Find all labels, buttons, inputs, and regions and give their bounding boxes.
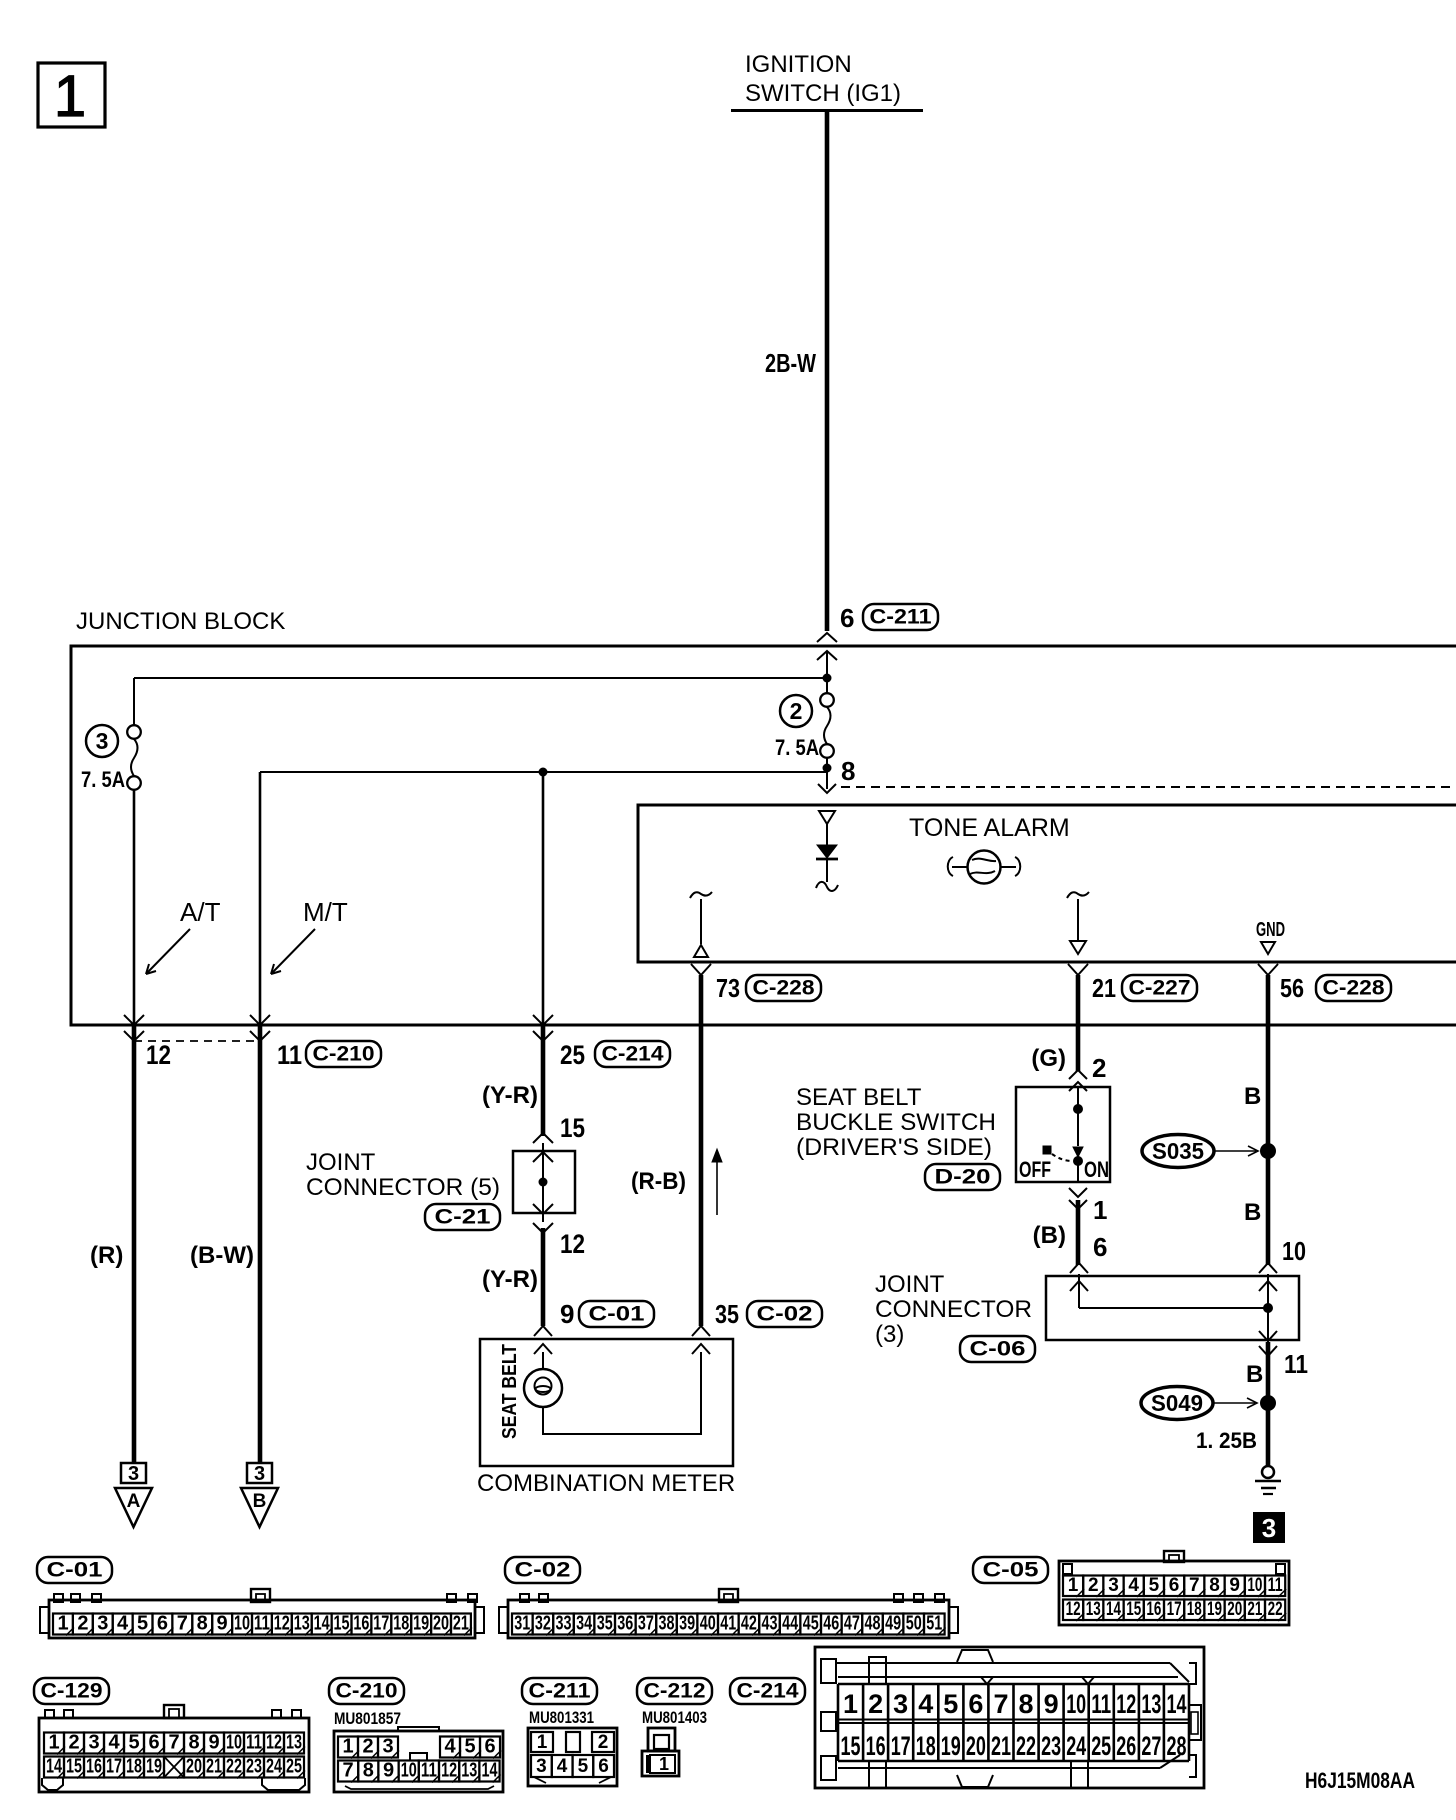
connector label C-210: [306, 1041, 381, 1067]
svg-text:9: 9: [383, 1760, 394, 1782]
svg-text:C-228: C-228: [753, 977, 815, 1000]
tone alarm internal stub pin 21: [1067, 892, 1089, 898]
svg-text:C-212: C-212: [644, 1680, 706, 1703]
connector C-02 drawing: [508, 1600, 949, 1638]
svg-text:5: 5: [128, 1732, 139, 1754]
svg-text:6: 6: [968, 1689, 983, 1719]
svg-text:C-01: C-01: [47, 1559, 103, 1582]
junction block outline: [71, 646, 1456, 1025]
connector chevron pin 73: [691, 964, 711, 975]
svg-text:5: 5: [464, 1736, 475, 1758]
svg-text:4: 4: [1128, 1575, 1139, 1596]
svg-text:17: 17: [106, 1756, 122, 1778]
svg-text:2B-W: 2B-W: [765, 348, 816, 378]
connector label C-211: [863, 604, 938, 630]
svg-text:50: 50: [906, 1613, 922, 1635]
svg-text:19: 19: [413, 1613, 429, 1635]
off-page reference 3 (ground page): [1253, 1512, 1285, 1543]
connector label C-01 (pin 9): [579, 1301, 654, 1327]
svg-text:3: 3: [1262, 1513, 1276, 1543]
svg-text:33: 33: [556, 1613, 572, 1635]
svg-text:35: 35: [715, 1299, 739, 1329]
svg-text:42: 42: [741, 1613, 757, 1635]
tone alarm buzzer symbol: [968, 851, 1001, 884]
svg-text:9: 9: [217, 1613, 228, 1635]
svg-text:48: 48: [865, 1613, 881, 1635]
svg-text:6: 6: [1093, 1232, 1107, 1262]
wire 2B-W from ignition switch: [825, 111, 830, 632]
svg-text:18: 18: [393, 1613, 409, 1635]
svg-text:16: 16: [86, 1756, 102, 1778]
svg-text:23: 23: [246, 1756, 262, 1778]
svg-text:SEAT BELT: SEAT BELT: [796, 1084, 922, 1111]
svg-text:MU801331: MU801331: [529, 1708, 594, 1727]
switch OFF contact: [1043, 1146, 1051, 1154]
meter internal wire to pin 35: [543, 1352, 701, 1434]
dashed off-page continuation wire: [841, 786, 1456, 788]
svg-text:18: 18: [1187, 1599, 1202, 1620]
svg-text:(B): (B): [1033, 1222, 1066, 1249]
svg-text:1: 1: [843, 1689, 858, 1719]
svg-text:3: 3: [96, 728, 109, 754]
svg-text:3: 3: [893, 1689, 908, 1719]
connector chevrons wire 12: [124, 1015, 144, 1025]
connector label C-129: [34, 1678, 109, 1704]
svg-text:9: 9: [1229, 1575, 1240, 1596]
svg-text:13: 13: [294, 1613, 310, 1635]
svg-text:(B-W): (B-W): [190, 1242, 254, 1269]
svg-text:1: 1: [1068, 1575, 1079, 1596]
svg-text:20: 20: [186, 1756, 202, 1778]
svg-text:15: 15: [841, 1731, 861, 1761]
svg-text:C-21: C-21: [435, 1206, 491, 1229]
svg-text:13: 13: [461, 1760, 477, 1782]
svg-text:BUCKLE SWITCH: BUCKLE SWITCH: [796, 1109, 996, 1136]
wire B from tone alarm pin 56: [1266, 975, 1271, 1265]
svg-text:25: 25: [1091, 1731, 1111, 1761]
svg-text:11: 11: [1268, 1575, 1283, 1596]
svg-text:2: 2: [362, 1736, 373, 1758]
svg-text:MU801857: MU801857: [334, 1709, 401, 1728]
input arrow inside tone alarm: [819, 811, 835, 824]
svg-text:11: 11: [254, 1613, 270, 1635]
svg-text:12: 12: [146, 1040, 171, 1070]
svg-text:13: 13: [1086, 1599, 1101, 1620]
junction dot at fuse 2 bottom / node 8: [823, 764, 832, 773]
wire M/T branch down: [259, 772, 262, 1025]
svg-text:2: 2: [1092, 1053, 1106, 1083]
svg-text:MU801403: MU801403: [642, 1708, 707, 1727]
svg-text:B: B: [1246, 1361, 1263, 1388]
svg-text:14: 14: [482, 1760, 499, 1782]
svg-text:9: 9: [208, 1732, 219, 1754]
connector chevrons wire 25: [533, 1015, 553, 1025]
in-line connector chevrons at junction block entry: [817, 633, 837, 642]
svg-text:C-01: C-01: [589, 1303, 645, 1326]
junction block internal bus (top): [134, 677, 827, 679]
svg-text:10: 10: [401, 1760, 417, 1782]
svg-text:8: 8: [1209, 1575, 1220, 1596]
splice S049: [1141, 1387, 1213, 1420]
connector chevron pin 56: [1258, 964, 1278, 975]
svg-text:4: 4: [444, 1736, 456, 1758]
svg-text:CONNECTOR (5): CONNECTOR (5): [306, 1174, 500, 1201]
svg-text:10: 10: [1247, 1575, 1262, 1596]
svg-text:S035: S035: [1152, 1138, 1204, 1164]
svg-text:26: 26: [1116, 1731, 1136, 1761]
svg-text:15: 15: [66, 1756, 82, 1778]
svg-text:C-06: C-06: [970, 1338, 1026, 1361]
connector chevrons wire 11: [250, 1015, 270, 1025]
svg-text:56: 56: [1280, 973, 1304, 1003]
A/T arrow: [146, 929, 190, 974]
arrow into tone alarm: [818, 784, 836, 793]
wire B to ground: [1266, 1342, 1271, 1466]
svg-text:13: 13: [286, 1732, 302, 1754]
svg-text:M/T: M/T: [303, 897, 348, 927]
svg-text:11: 11: [277, 1040, 302, 1070]
svg-text:13: 13: [1141, 1689, 1161, 1719]
svg-text:6: 6: [484, 1736, 495, 1758]
svg-text:1: 1: [54, 64, 86, 129]
svg-text:1: 1: [342, 1736, 353, 1758]
meter connector chevrons pin 35: [692, 1326, 710, 1336]
svg-text:46: 46: [823, 1613, 839, 1635]
svg-text:44: 44: [782, 1613, 799, 1635]
svg-text:21: 21: [1092, 973, 1116, 1003]
svg-text:18: 18: [916, 1731, 936, 1761]
svg-text:21: 21: [1247, 1599, 1262, 1620]
svg-text:10: 10: [1282, 1236, 1306, 1266]
svg-text:47: 47: [844, 1613, 860, 1635]
svg-text:1: 1: [659, 1754, 669, 1774]
svg-text:(DRIVER'S SIDE): (DRIVER'S SIDE): [796, 1134, 992, 1161]
connector label C-06: [960, 1336, 1035, 1362]
svg-text:21: 21: [453, 1613, 469, 1635]
svg-text:7: 7: [168, 1732, 179, 1754]
connector label C-21: [425, 1204, 500, 1230]
connector label C-228 (pin 56): [1316, 975, 1391, 1001]
svg-text:5: 5: [137, 1613, 148, 1635]
svg-text:4: 4: [108, 1732, 120, 1754]
svg-text:12: 12: [1066, 1599, 1081, 1620]
svg-text:COMBINATION METER: COMBINATION METER: [477, 1470, 735, 1497]
svg-text:16: 16: [866, 1731, 886, 1761]
svg-text:1: 1: [537, 1732, 548, 1753]
svg-text:3: 3: [88, 1732, 99, 1754]
connector label C-214: [595, 1041, 670, 1067]
svg-text:20: 20: [966, 1731, 986, 1761]
meter connector chevrons pin 9: [534, 1326, 552, 1336]
switch moving contact arrow: [1073, 1147, 1083, 1157]
svg-text:S049: S049: [1151, 1390, 1203, 1416]
svg-text:1. 25B: 1. 25B: [1196, 1428, 1257, 1453]
svg-text:(G): (G): [1031, 1045, 1066, 1072]
svg-text:37: 37: [638, 1613, 654, 1635]
wire (B-W) M/T: [258, 1025, 263, 1462]
svg-text:5: 5: [943, 1689, 958, 1719]
svg-text:5: 5: [578, 1756, 589, 1777]
svg-text:32: 32: [535, 1613, 551, 1635]
svg-text:TONE ALARM: TONE ALARM: [909, 814, 1070, 842]
svg-text:7. 5A: 7. 5A: [81, 767, 125, 792]
svg-text:(Y-R): (Y-R): [482, 1266, 538, 1293]
connector C-129 drawing: [39, 1718, 309, 1792]
wire from fuse 3 down (A/T): [133, 790, 136, 1025]
svg-text:22: 22: [1268, 1599, 1283, 1620]
svg-text:B: B: [253, 1491, 267, 1512]
wire (R) A/T: [132, 1025, 137, 1462]
svg-text:9: 9: [560, 1299, 574, 1329]
svg-text:2: 2: [790, 698, 803, 724]
sheet number 1 box: [38, 63, 105, 127]
svg-text:10: 10: [1066, 1689, 1086, 1719]
connector C-05 drawing: [1059, 1561, 1289, 1625]
current direction arrow: [716, 1158, 718, 1215]
connector C-214 drawing: [815, 1647, 1204, 1788]
svg-text:H6J15M08AA: H6J15M08AA: [1305, 1768, 1415, 1793]
svg-text:12: 12: [441, 1760, 457, 1782]
connector label C-214 (bottom): [730, 1678, 805, 1704]
svg-text:10: 10: [234, 1613, 250, 1635]
svg-text:11: 11: [246, 1732, 262, 1754]
svg-text:2: 2: [868, 1689, 883, 1719]
off-page terminal 3-A: [121, 1463, 146, 1483]
svg-text:10: 10: [226, 1732, 242, 1754]
svg-text:3: 3: [128, 1463, 139, 1485]
svg-text:D-20: D-20: [935, 1166, 991, 1189]
svg-text:A: A: [127, 1491, 141, 1512]
svg-text:19: 19: [146, 1756, 162, 1778]
fuse 2 number circle: [780, 695, 812, 727]
splice S035: [1142, 1135, 1214, 1168]
svg-text:19: 19: [941, 1731, 961, 1761]
svg-text:C-227: C-227: [1129, 977, 1191, 1000]
svg-text:38: 38: [659, 1613, 675, 1635]
svg-text:2: 2: [68, 1732, 79, 1754]
svg-text:45: 45: [803, 1613, 819, 1635]
svg-text:B: B: [1244, 1199, 1261, 1226]
svg-text:51: 51: [926, 1613, 942, 1635]
svg-text:21: 21: [206, 1756, 222, 1778]
joint connector chevrons pin 12: [533, 1204, 553, 1214]
connector C-211 drawing: [528, 1728, 617, 1786]
svg-text:11: 11: [1091, 1689, 1111, 1719]
svg-text:14: 14: [46, 1756, 63, 1778]
svg-text:19: 19: [1207, 1599, 1222, 1620]
off-page terminal 3-B: [247, 1463, 272, 1483]
connector label C-02 (bottom): [505, 1557, 580, 1583]
C-06 connector chevrons pin 10: [1259, 1263, 1277, 1273]
svg-text:8: 8: [197, 1613, 208, 1635]
connector C-210 drawing: [334, 1731, 503, 1792]
M/T arrow: [271, 929, 315, 974]
joint connector chevrons pin 15: [533, 1133, 553, 1143]
svg-text:6: 6: [157, 1613, 168, 1635]
seat belt buckle switch box: [1016, 1087, 1110, 1182]
svg-text:14: 14: [1167, 1689, 1187, 1719]
svg-text:6: 6: [1169, 1575, 1180, 1596]
wire (Y-R) upper segment: [541, 1025, 546, 1136]
svg-text:1: 1: [1093, 1195, 1107, 1225]
svg-text:43: 43: [762, 1613, 778, 1635]
svg-text:25: 25: [286, 1756, 302, 1778]
splice dot S035: [1260, 1143, 1276, 1159]
svg-text:C-214: C-214: [602, 1043, 664, 1066]
svg-text:C-210: C-210: [313, 1043, 375, 1066]
svg-text:SEAT BELT: SEAT BELT: [499, 1344, 521, 1439]
svg-text:(Y-R): (Y-R): [482, 1082, 538, 1109]
svg-text:4: 4: [557, 1756, 568, 1777]
svg-text:8: 8: [363, 1760, 374, 1782]
svg-text:20: 20: [1227, 1599, 1242, 1620]
TONE ALARM box: [638, 805, 1456, 962]
svg-text:24: 24: [1066, 1731, 1086, 1761]
svg-text:22: 22: [1016, 1731, 1036, 1761]
fuse 3 number circle: [86, 725, 118, 757]
svg-text:41: 41: [720, 1613, 736, 1635]
svg-text:3: 3: [536, 1756, 547, 1777]
connector label C-01 (bottom): [37, 1557, 112, 1583]
svg-text:73: 73: [716, 973, 740, 1003]
splice dot S049: [1260, 1395, 1276, 1411]
junction block internal bus (fuse 2 output): [260, 771, 827, 773]
diode inside tone alarm: [826, 824, 828, 845]
C-06 connector chevrons pin 11: [1259, 1331, 1277, 1341]
svg-text:3: 3: [1108, 1575, 1119, 1596]
svg-text:C-02: C-02: [515, 1559, 571, 1582]
svg-text:C-211: C-211: [529, 1680, 591, 1703]
switch connector chevrons pin 2: [1069, 1070, 1087, 1079]
svg-text:15: 15: [560, 1113, 585, 1143]
svg-text:IGNITION: IGNITION: [745, 51, 852, 78]
svg-text:1: 1: [48, 1732, 59, 1754]
wire (R-B): [699, 975, 704, 1326]
svg-text:C-211: C-211: [870, 606, 932, 629]
svg-text:36: 36: [617, 1613, 633, 1635]
svg-text:39: 39: [679, 1613, 695, 1635]
wire 25 branch down: [542, 772, 545, 1025]
wire (B) from switch: [1076, 1200, 1081, 1265]
dashed connector tie 12-11: [134, 1040, 260, 1042]
svg-text:A/T: A/T: [180, 897, 221, 927]
svg-text:15: 15: [334, 1613, 350, 1635]
svg-text:SWITCH (IG1): SWITCH (IG1): [745, 80, 901, 107]
JOINT CONNECTOR (3) box C-06: [1046, 1276, 1299, 1340]
svg-text:16: 16: [353, 1613, 369, 1635]
svg-text:JUNCTION BLOCK: JUNCTION BLOCK: [76, 608, 285, 635]
svg-text:C-214: C-214: [737, 1680, 799, 1703]
svg-text:C-129: C-129: [41, 1680, 103, 1703]
svg-text:12: 12: [560, 1229, 585, 1259]
svg-text:9: 9: [1044, 1689, 1059, 1719]
svg-text:40: 40: [700, 1613, 716, 1635]
svg-text:(3): (3): [875, 1321, 904, 1348]
svg-text:5: 5: [1149, 1575, 1160, 1596]
svg-text:6: 6: [598, 1756, 609, 1777]
switch OFF-ON dashed throw: [1052, 1154, 1072, 1161]
svg-text:15: 15: [1126, 1599, 1141, 1620]
junction dot at fuse 2 top: [823, 674, 832, 683]
connector label C-228 (pin 73): [746, 975, 821, 1001]
fuse 2 symbol: [826, 651, 828, 693]
svg-text:7: 7: [177, 1613, 188, 1635]
connector label C-210 (bottom): [329, 1678, 404, 1704]
connector label C-211 (bottom): [522, 1678, 597, 1704]
connector label D-20: [925, 1164, 1000, 1190]
svg-text:21: 21: [991, 1731, 1011, 1761]
svg-text:B: B: [1244, 1083, 1261, 1110]
C-06 connector chevrons pin 6: [1070, 1263, 1088, 1273]
svg-text:7: 7: [343, 1760, 354, 1782]
svg-text:CONNECTOR: CONNECTOR: [875, 1296, 1032, 1323]
svg-text:12: 12: [266, 1732, 282, 1754]
svg-text:(R-B): (R-B): [631, 1168, 686, 1195]
svg-text:(R): (R): [90, 1242, 123, 1269]
svg-text:49: 49: [885, 1613, 901, 1635]
svg-text:C-210: C-210: [336, 1680, 398, 1703]
svg-text:11: 11: [1284, 1349, 1308, 1379]
svg-text:35: 35: [597, 1613, 613, 1635]
svg-text:4: 4: [918, 1689, 933, 1719]
svg-text:11: 11: [421, 1760, 437, 1782]
ground symbol: [1262, 1466, 1274, 1478]
COMBINATION METER box: [480, 1339, 733, 1466]
svg-text:GND: GND: [1256, 919, 1285, 941]
svg-text:16: 16: [1146, 1599, 1161, 1620]
svg-text:6: 6: [840, 603, 854, 633]
svg-text:8: 8: [841, 756, 855, 786]
connector C-212 drawing: [648, 1728, 675, 1751]
svg-text:25: 25: [560, 1040, 585, 1070]
connector label C-02 (pin 35): [747, 1301, 822, 1327]
svg-text:3: 3: [382, 1736, 393, 1758]
svg-text:6: 6: [148, 1732, 159, 1754]
svg-text:C-05: C-05: [983, 1559, 1039, 1582]
svg-text:3: 3: [97, 1613, 108, 1635]
svg-text:3: 3: [254, 1463, 265, 1485]
fuse 3 symbol: [133, 678, 135, 725]
svg-text:4: 4: [117, 1613, 129, 1635]
wire (G) from tone alarm pin 21: [1076, 975, 1081, 1071]
svg-text:8: 8: [1018, 1689, 1033, 1719]
svg-text:12: 12: [1116, 1689, 1136, 1719]
svg-text:20: 20: [433, 1613, 449, 1635]
svg-text:JOINT: JOINT: [875, 1271, 945, 1298]
svg-text:1: 1: [57, 1613, 68, 1635]
junction dot for wire 25 branch: [539, 768, 548, 777]
svg-text:31: 31: [514, 1613, 530, 1635]
svg-text:ON: ON: [1084, 1157, 1109, 1182]
svg-text:24: 24: [266, 1756, 283, 1778]
svg-text:27: 27: [1141, 1731, 1161, 1761]
svg-text:12: 12: [274, 1613, 290, 1635]
connector C-01 drawing: [49, 1600, 475, 1638]
JOINT CONNECTOR (5) box C-21: [513, 1151, 575, 1213]
svg-text:18: 18: [126, 1756, 142, 1778]
svg-text:C-02: C-02: [757, 1303, 813, 1326]
svg-text:OFF: OFF: [1019, 1157, 1051, 1182]
wire (Y-R) lower segment: [541, 1228, 546, 1326]
svg-text:23: 23: [1041, 1731, 1061, 1761]
svg-text:2: 2: [77, 1613, 88, 1635]
svg-text:34: 34: [576, 1613, 593, 1635]
svg-text:8: 8: [188, 1732, 199, 1754]
svg-text:7: 7: [1189, 1575, 1200, 1596]
connector chevron pin 21: [1068, 964, 1088, 975]
svg-text:17: 17: [1167, 1599, 1182, 1620]
svg-text:17: 17: [891, 1731, 911, 1761]
